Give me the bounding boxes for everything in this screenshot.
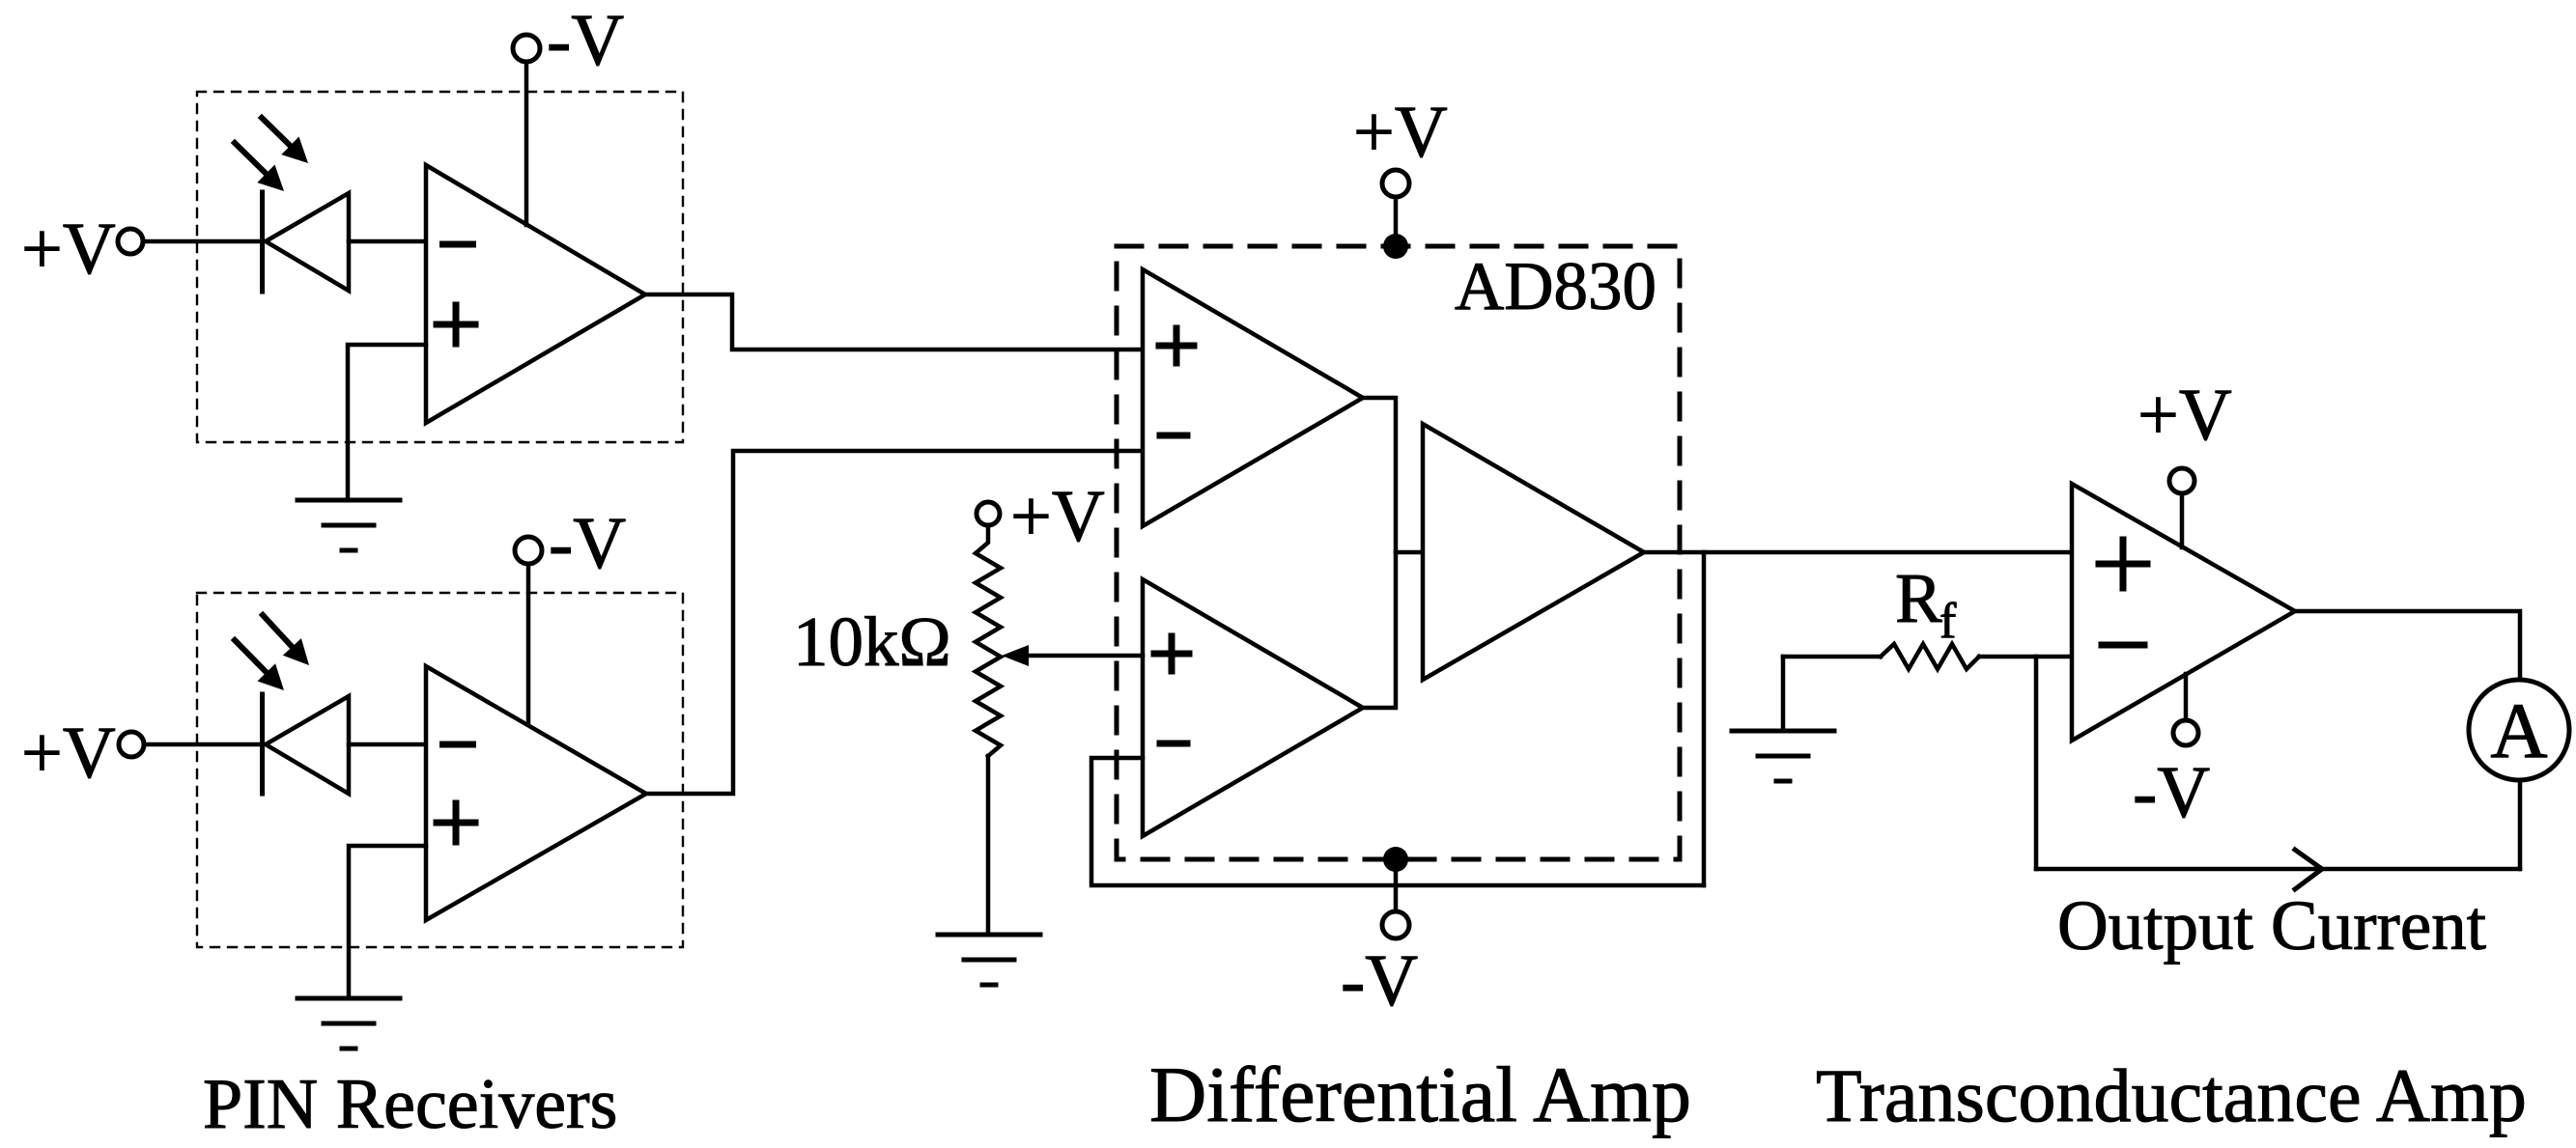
wire U2 non-inverting input to ground (349, 846, 426, 998)
ground (Rf) (1781, 657, 1786, 731)
wire ammeter to output current loop (2518, 780, 2523, 869)
receiver box 1 (dashed) (197, 92, 683, 442)
wire -V to U2 (526, 564, 531, 724)
junction dot (AD830 +V) (1383, 234, 1408, 259)
terminal -V (U3) (2184, 674, 2189, 720)
terminal -V (AD830) (1382, 911, 1409, 938)
ground bars (Rf) (1732, 729, 1834, 734)
wire U2 output to AD830 -IN1 (646, 451, 1143, 794)
svg-text:+V: +V (21, 209, 116, 290)
wire +V to AD830 (1394, 197, 1399, 243)
wire potentiometer to ground (986, 756, 991, 935)
light arrows into D1 (262, 118, 295, 150)
photodiode D1 (260, 192, 265, 292)
ammeter A (2469, 680, 2569, 780)
svg-text:-V: -V (2133, 752, 2210, 833)
wire A3 output to transconductance amp (1644, 550, 2072, 555)
wire D1 to U1 inverting input (349, 239, 426, 244)
svg-text:Differential Amp: Differential Amp (1149, 1050, 1691, 1138)
svg-text:f: f (1939, 594, 1957, 649)
svg-text:-V: -V (549, 503, 626, 584)
wire ground to Rf (1783, 655, 1881, 659)
wire -V to U1 (524, 62, 529, 225)
AD830 box (dashed) (1117, 246, 1680, 859)
current direction arrow (2295, 850, 2322, 889)
op-amp A1 (AD830 input stage 1) (1143, 269, 1363, 526)
ground (potentiometer) (938, 933, 1040, 938)
wire A1 output to summing node (1363, 398, 1396, 708)
wiper arrowhead (1002, 645, 1029, 666)
svg-text:R: R (1895, 559, 1942, 637)
svg-text:Transconductance Amp: Transconductance Amp (1816, 1053, 2527, 1137)
ground (upper receiver) (297, 498, 400, 503)
receiver box 2 (dashed) (197, 593, 683, 947)
wire A2 non-inverting input (wiper) (1027, 654, 1143, 658)
junction dot (AD830 -V) (1383, 847, 1408, 872)
wire U3 output to ammeter (2295, 611, 2520, 681)
svg-text:AD830: AD830 (1455, 249, 1656, 324)
op-amp A2 (AD830 input stage 2) (1143, 579, 1363, 836)
potentiometer 10k ohm (976, 526, 1001, 756)
wire +V to photodiode D2 (144, 742, 262, 747)
svg-text:+V: +V (1353, 92, 1448, 173)
svg-text:+V: +V (1010, 476, 1105, 557)
wire U1 non-inverting input to ground (348, 345, 426, 500)
op-amp A3 (AD830 output stage) (1423, 424, 1644, 680)
wire feedback tap (AD830 output) (1702, 552, 1707, 885)
svg-text:-V: -V (1341, 940, 1418, 1022)
wire feedback (output current loop left) (2034, 657, 2039, 869)
resistor Rf (1881, 644, 1979, 669)
svg-text:A: A (2490, 686, 2547, 774)
op-amp U3 (transconductance) (2072, 484, 2295, 741)
svg-text:PIN Receivers: PIN Receivers (203, 1065, 617, 1144)
wire summing node to A3 (1396, 550, 1423, 555)
wire +V to photodiode D1 (143, 239, 262, 244)
op-amp U1 (426, 165, 645, 423)
svg-text:Output Current: Output Current (2057, 886, 2486, 965)
wire AD830 to -V terminal (1394, 859, 1399, 911)
wire Rf to U3 inverting input (1979, 655, 2072, 659)
op-amp U2 (426, 666, 646, 920)
ground (lower receiver) (297, 996, 400, 1001)
wire D2 to U2 inverting input (349, 742, 426, 747)
wire U1 output to AD830 +IN1 (645, 294, 1143, 350)
wire feedback to A2 inverting input (1091, 758, 1704, 885)
svg-text:-V: -V (547, 0, 624, 81)
svg-text:+V: +V (21, 713, 116, 794)
photodiode D2 (260, 694, 265, 794)
wire output current loop bottom (2036, 867, 2520, 872)
light arrows into D2 (263, 615, 296, 651)
svg-text:+V: +V (2137, 375, 2232, 456)
svg-text:10kΩ: 10kΩ (793, 602, 951, 681)
